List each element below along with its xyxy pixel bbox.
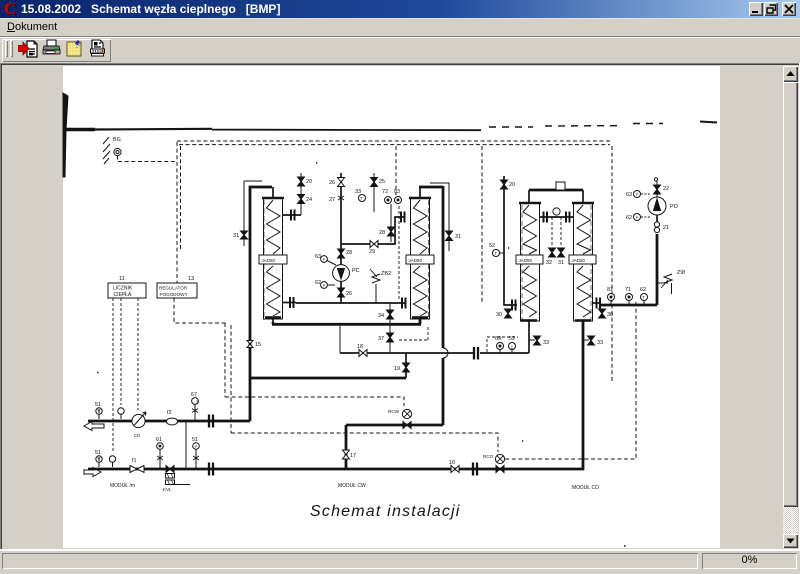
wire drain connector x340 [339,326,341,353]
valve 17 [343,450,350,459]
valve 33 W4 [583,336,595,345]
svg-text:37: 37 [378,336,384,342]
scan artifact top line thin [212,129,481,132]
flange W3 bl [512,300,516,311]
valve 26 top [338,178,345,187]
svg-text:62: 62 [640,287,646,293]
valve 30 drain CO [505,309,512,318]
svg-text:PC: PC [352,268,360,274]
sensor 1b circle [109,456,115,467]
wire W3-W4 top connector [529,189,583,192]
sensor BG circle [114,148,121,155]
svg-text:71: 71 [625,287,631,293]
svg-text:REGULATOR: REGULATOR [159,286,188,291]
valve f1 gate [130,466,144,473]
svg-text:20: 20 [306,179,312,185]
valve 25 [371,178,378,187]
wire W3-W4 cross y217 [540,216,573,218]
svg-text:28: 28 [346,250,352,256]
wire thin top branch [244,181,262,246]
wire CW return drop x443 with hop [442,186,445,425]
svg-text:MODUŁ /m: MODUŁ /m [110,483,135,489]
valve 30 CO drain [599,309,606,318]
sensor T 51 supply [96,408,102,419]
wire dashed control run B [230,325,232,433]
svg-text:13: 13 [188,276,194,282]
flange pair W4 left [566,212,570,223]
valve 16 [451,466,459,473]
svg-text:51: 51 [95,450,101,456]
sensor 69 [497,343,504,354]
heat exchanger W2 body [406,187,434,324]
safety valve Z9f [657,274,672,294]
svg-text:63: 63 [315,254,321,260]
svg-text:62: 62 [626,215,632,221]
gauge 62 [321,282,335,289]
wire sensor drop x387 [390,204,392,242]
sensor 52 CO [493,250,505,257]
scan artifact page edge bar [63,93,68,177]
wire W1 bottom-right stub [283,302,296,304]
svg-text:61: 61 [156,437,162,443]
svg-text:CIEPŁA: CIEPŁA [114,292,132,298]
svg-text:POGODOWY: POGODOWY [160,292,188,297]
svg-text:PO: PO [670,204,679,210]
valve 28 [338,249,345,258]
svg-text:34: 34 [378,313,384,319]
svg-text:25: 25 [379,179,385,185]
svg-text:32: 32 [546,260,552,266]
wire dashed control to RCO [231,433,498,452]
wire return pipe bottom main [88,468,584,471]
wire dashed licznik drop 2 [120,298,122,405]
gauge 63 PO [634,191,651,198]
svg-text:31: 31 [455,234,461,240]
svg-text:T: T [642,295,645,300]
flange pair W3 right [544,212,548,223]
wire dashed sensor bracket 69/52 [487,337,518,352]
wire bottom U between exchangers [272,318,421,324]
svg-text:72: 72 [382,189,388,195]
svg-text:P: P [636,192,639,197]
sensor 3 circle [118,408,124,419]
svg-text:JAD50: JAD50 [572,258,586,263]
centerline W4 [590,205,592,320]
svg-text:20: 20 [509,182,515,188]
wire dashed sensor run to RCO [505,302,636,459]
sensor 52b [509,343,516,354]
svg-text:MODUŁ CO: MODUŁ CO [572,485,599,491]
wire makeup line x374 [373,173,375,212]
centerline W1 [263,200,265,318]
svg-text:51: 51 [95,402,101,408]
svg-text:21: 21 [663,225,669,231]
wire dashed vertical x177 to regulator [177,142,181,283]
valve 29 [370,241,378,248]
svg-text:RCW: RCW [388,409,400,414]
svg-text:33: 33 [597,340,603,346]
wire cross line y303 [296,302,406,304]
svg-text:62: 62 [315,280,321,286]
valve 31 drain [241,231,248,239]
sensor 71 [626,294,633,305]
svg-text:ZB2: ZB2 [381,271,391,277]
sensor 33 [359,195,366,202]
wire bypass riser x390 [389,303,391,353]
wire supply pipe left [88,420,250,423]
scan artifact top line [63,128,95,131]
centerline W2 [428,200,430,318]
valve 22 [654,178,661,197]
ground symbol BG hatch [103,137,110,164]
svg-text:29: 29 [369,249,375,255]
svg-text:63: 63 [626,192,632,198]
flange W4 right [597,298,601,309]
svg-text:Z9f: Z9f [677,270,685,276]
valve 33 W3 [529,336,541,345]
valve 37 [387,333,394,342]
svg-text:JAD50: JAD50 [409,258,423,263]
valve 32 [549,248,556,257]
svg-text:24: 24 [306,197,312,203]
wire dashed stub near HE2 bottom [399,327,428,340]
flange W1 tr [291,210,295,221]
window title bar [0,0,800,18]
valve 24 [298,195,305,204]
wire pump PO riser [656,234,659,305]
valve 20 [298,177,305,186]
strainer KVL body [166,474,191,485]
svg-text:KVL: KVL [163,487,172,492]
valve 31co [558,248,565,257]
svg-text:19: 19 [394,366,400,372]
svg-text:33: 33 [543,340,549,346]
wire dashed licznik drop 1 [112,298,114,453]
flange drain header [474,347,478,360]
toolbar [0,36,800,64]
valve 15 [247,341,253,348]
svg-text:P: P [636,215,639,220]
svg-text:26: 26 [346,291,352,297]
svg-text:26: 26 [329,180,335,186]
svg-text:28: 28 [379,230,385,236]
svg-text:33: 33 [355,189,361,195]
vertical scrollbar [783,66,798,82]
svg-text:LICZNIK: LICZNIK [113,286,133,292]
heat exchanger W3 body [516,190,543,353]
wire valve branch x301 [300,173,302,215]
svg-text:16: 16 [449,460,455,466]
wire valve19 connector x406 [405,353,407,378]
svg-text:17: 17 [350,453,356,459]
wire W2 top connector [419,186,443,189]
heat exchanger W4 body [569,190,596,321]
gauge 63 [321,256,336,265]
svg-text:T: T [360,196,363,201]
flange W2 bl [402,298,406,309]
valve 31 vent [430,183,453,251]
wire dashed control to RCW [225,397,404,406]
valve 26 bottom [338,288,345,297]
coupling 21 [654,222,659,233]
svg-text:51: 51 [192,437,198,443]
wire dashed sensor drop x395 [395,146,397,195]
scan artifact top dashes [489,124,663,128]
svg-text:81: 81 [607,287,613,293]
gauge 62 PO [634,214,651,221]
heat exchanger W1 body [259,187,287,324]
wire W1 top-right stub [283,214,301,216]
wire supply riser x250 [250,187,272,421]
svg-text:83: 83 [394,189,400,195]
pump PC [333,265,350,282]
svg-text:T: T [494,251,497,256]
svg-text:18: 18 [357,344,363,350]
wire RCW cross y425 [346,424,443,427]
wire makeup cross y244 [341,217,404,244]
svg-text:Schemat instalacji: Schemat instalacji [310,503,461,520]
sensor 62T [641,294,648,305]
wire dashed sensor run x399 [398,206,400,300]
svg-text:BG: BG [113,137,121,143]
svg-text:22: 22 [663,186,669,192]
valve 20 CO [501,180,508,189]
hop arc at y353 [443,348,448,358]
svg-text:RCO: RCO [483,454,494,459]
svg-text:11: 11 [119,276,125,282]
wire CO supply x504 [504,176,517,305]
svg-text:co: co [134,433,140,439]
svg-text:31: 31 [233,233,239,239]
flange pair return [209,463,213,476]
arrow return inlet [84,468,101,477]
valve 18 [359,350,367,357]
wire dashed BG to regulator bus [118,156,178,162]
flange bottom pipe [473,463,477,476]
sensor 72 [385,197,392,204]
pump PO [648,197,666,222]
sensor 81 [608,294,615,305]
wire dashed control run A [224,323,226,397]
svg-text:30: 30 [496,312,502,318]
valve 28 makeup [388,227,395,236]
valve 34 [387,310,394,319]
flange W1 br [290,297,294,308]
centerline W3 [521,205,523,320]
wire riser between pipes [185,421,187,469]
arrow supply inlet [84,422,104,431]
gauge 67 [192,398,200,421]
gauge 61 [157,443,164,469]
wire CO supply header y305 [600,304,657,307]
wire W4 right stub [593,302,601,304]
wire blend line y378 [250,377,406,380]
svg-text:f2: f2 [167,410,172,416]
wire dashdot drop 32 [551,217,553,246]
svg-text:67: 67 [191,392,197,398]
wire dashed regulator drop [174,298,228,323]
wire drain header y353 [340,352,474,354]
scan noise dots [97,163,626,546]
sensor loop on cross [553,208,560,215]
flow meter co [132,412,146,428]
svg-text:P: P [323,257,326,262]
svg-text:31: 31 [558,260,564,266]
flange pair supply [209,415,213,428]
status bar [0,551,800,574]
safety valve ZB2 [370,269,380,303]
control valve RCW [402,409,411,428]
gauge 51P return [193,443,200,469]
svg-text:30: 30 [607,312,613,318]
valve 19 [403,363,410,372]
wire RCW drop x346 [345,425,348,469]
svg-text:P: P [323,283,326,288]
wire dashdot drop 31 [560,217,562,246]
svg-text:MODUŁ CW: MODUŁ CW [338,483,366,489]
wire pump PC line [340,173,342,303]
wire dashed box edge x481 [481,146,483,303]
svg-text:15: 15 [255,342,261,348]
valve 27 [338,196,344,200]
svg-text:JAD50: JAD50 [519,258,533,263]
svg-text:P: P [195,444,198,449]
menu bar [0,18,800,36]
box U1 LICZNIK CIEPLA [108,283,146,298]
wire W4 bottom drop [582,320,585,470]
reducer f2 [166,418,177,425]
svg-text:P: P [197,399,200,404]
wire drain header CO [480,352,529,354]
svg-text:52: 52 [509,336,515,342]
svg-text:JAD50: JAD50 [262,258,276,263]
wire dashed licznik drop 3 [137,298,139,410]
svg-text:52: 52 [489,243,495,249]
svg-text:27: 27 [329,197,335,203]
wire dashed box edge x612 [611,146,613,383]
svg-text:f1: f1 [132,458,137,464]
sensor 83 [395,197,402,204]
wire dashed cabinet top double line [177,141,612,145]
box U2 REGULATOR POGODOWY [157,283,197,298]
expansion box on top connector [556,182,565,190]
strainer KVL valve [166,466,174,473]
flange W2 tl [401,212,405,223]
sensor T 51 return [96,456,102,467]
control valve RCO [495,454,504,472]
